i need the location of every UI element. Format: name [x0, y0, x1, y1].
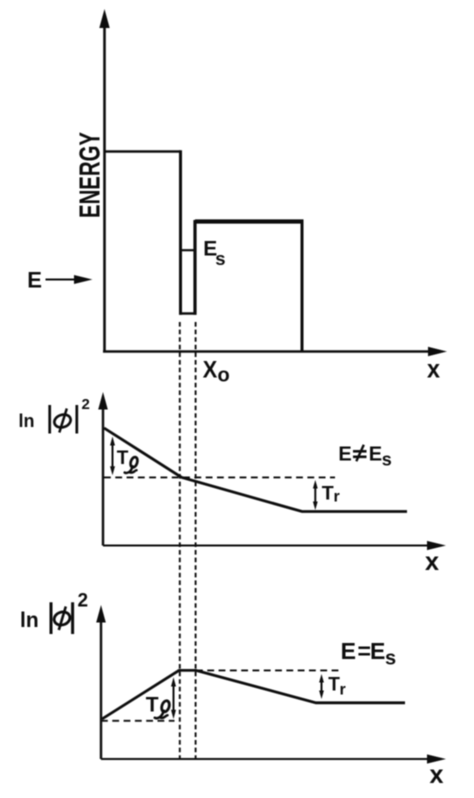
- arrowhead for E arrow: [74, 275, 93, 284]
- phi stem: [59, 409, 67, 433]
- dashed guide line left (x = x0 left wall): [179, 322, 181, 762]
- bottom T_l double arrow: [173, 682, 175, 714]
- y-axis (ENERGY): [103, 26, 106, 352]
- potential profile: well bottom: [179, 312, 197, 315]
- label |phi| left bar: [48, 405, 51, 434]
- svg-text:E: E: [341, 638, 356, 664]
- middle T_l double arrow: [112, 441, 114, 471]
- bottom x-axis arrowhead: [427, 754, 446, 763]
- svg-text:s: s: [385, 647, 396, 669]
- middle wavefunction curve: [104, 428, 407, 512]
- svg-text:2: 2: [78, 591, 89, 612]
- phi stem: [59, 607, 66, 631]
- phi loop: [52, 610, 71, 627]
- svg-text:T: T: [322, 483, 334, 505]
- svg-text:E: E: [338, 444, 351, 466]
- svg-text:r: r: [334, 489, 340, 506]
- middle x-axis: [103, 545, 431, 547]
- svg-text:X: X: [203, 357, 218, 384]
- potential profile: right barrier top (thick): [195, 219, 304, 223]
- potential profile: left barrier top: [104, 150, 181, 153]
- label |phi| right bar: [75, 405, 78, 434]
- phi loop: [53, 413, 73, 430]
- middle horizontal dashed level: [104, 476, 335, 478]
- svg-text:2: 2: [82, 396, 90, 413]
- svg-text:r: r: [340, 682, 346, 699]
- svg-text:x: x: [425, 546, 440, 576]
- middle x-axis arrowhead: [427, 541, 446, 550]
- dashed guide line right (x = x0 right wall): [195, 322, 197, 762]
- bottom lower dashed level: [101, 720, 175, 722]
- svg-text:s: s: [215, 248, 225, 269]
- resonance level E_s line in well: [182, 249, 196, 251]
- svg-text:x: x: [427, 354, 440, 384]
- bottom wavefunction curve: [102, 670, 405, 719]
- svg-text:s: s: [382, 449, 392, 469]
- svg-text:ln: ln: [19, 411, 35, 431]
- bottom x-axis: [101, 758, 431, 760]
- svg-text:E: E: [370, 638, 385, 664]
- x-axis arrowhead: [428, 347, 447, 357]
- svg-text:ln: ln: [20, 609, 39, 632]
- potential profile: right barrier right wall: [301, 222, 304, 352]
- potential profile: well left wall: [179, 150, 182, 314]
- svg-text:E: E: [27, 268, 42, 293]
- label |phi| right bar: [71, 602, 74, 634]
- svg-text:T: T: [328, 674, 340, 695]
- bottom y-axis arrowhead: [96, 605, 106, 623]
- svg-text:x: x: [430, 759, 445, 789]
- bottom upper dashed level: [196, 669, 343, 671]
- svg-text:T: T: [117, 448, 129, 469]
- x-axis: [103, 350, 432, 352]
- y-axis arrowhead: [99, 9, 109, 28]
- svg-text:T: T: [146, 694, 159, 717]
- svg-text:E: E: [369, 444, 382, 466]
- bottom y-axis: [100, 620, 102, 759]
- label |phi| left bar: [50, 602, 53, 634]
- arrow for E: [46, 279, 81, 281]
- svg-text:ENERGY: ENERGY: [75, 132, 107, 218]
- middle T_r double arrow: [314, 484, 316, 506]
- potential profile: well right wall: [193, 220, 196, 315]
- svg-text:=: =: [358, 638, 371, 664]
- middle y-axis: [102, 407, 104, 546]
- middle y-axis arrowhead: [98, 392, 108, 410]
- bottom T_r double arrow: [321, 678, 323, 695]
- svg-text:o: o: [218, 365, 230, 387]
